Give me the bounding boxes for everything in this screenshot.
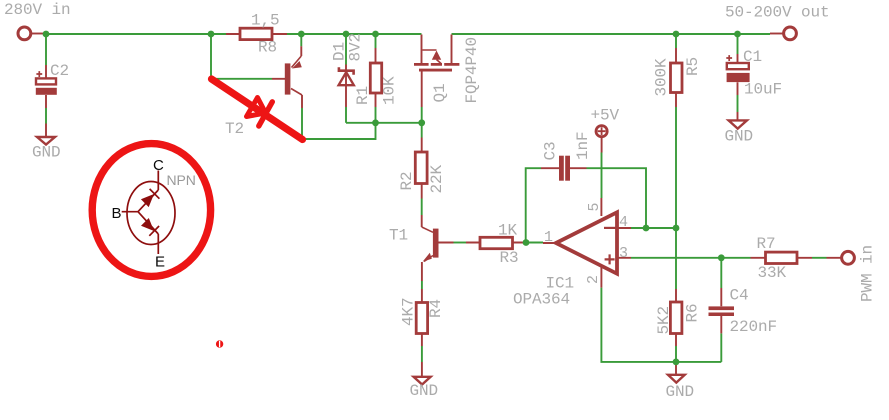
svg-text:C4: C4 bbox=[730, 287, 749, 305]
terminal 280V in bbox=[18, 27, 31, 40]
svg-text:8V2: 8V2 bbox=[347, 33, 365, 62]
resistor R8 leads bbox=[226, 33, 287, 35]
resistor R4 bbox=[416, 303, 427, 334]
wire R1 bottom bbox=[375, 107, 377, 123]
svg-text:R6: R6 bbox=[684, 303, 702, 322]
node out rail at R5 bbox=[673, 31, 680, 38]
wire R3 to op-amp output node bbox=[524, 242, 543, 244]
op-amp IC1 bbox=[556, 212, 617, 273]
svg-text:R2: R2 bbox=[398, 171, 416, 190]
terminal PWM in bbox=[842, 251, 855, 264]
node gate at R2 top bbox=[418, 119, 425, 126]
wire R2 to T1 collector bbox=[421, 199, 423, 216]
svg-text:2: 2 bbox=[585, 275, 602, 284]
zener diode D1 bbox=[339, 67, 354, 85]
svg-text:R1: R1 bbox=[354, 86, 372, 105]
svg-text:PWM in: PWM in bbox=[859, 245, 877, 302]
resistor R6 bbox=[670, 302, 682, 334]
node out rail at C1 bbox=[734, 31, 741, 38]
node rail at R1 bbox=[372, 31, 379, 38]
wire top rail right (Q1 drain to out terminal) bbox=[452, 33, 771, 35]
resistor R7 leads bbox=[751, 257, 842, 259]
node rail at T2 emitter bbox=[298, 31, 305, 38]
mosfet Q1 bbox=[414, 50, 459, 70]
wire T1 base to R3 bbox=[454, 242, 467, 244]
wire pin4 node bbox=[631, 227, 676, 229]
svg-text:33K: 33K bbox=[758, 264, 787, 282]
svg-text:10K: 10K bbox=[381, 76, 399, 105]
svg-text:GND: GND bbox=[725, 128, 754, 146]
svg-text:R8: R8 bbox=[258, 39, 277, 57]
svg-text:FQP4P40: FQP4P40 bbox=[463, 37, 481, 104]
svg-text:280V in: 280V in bbox=[4, 1, 71, 19]
wire D1 top bbox=[345, 34, 347, 65]
LEADS (component pins, dark red) bbox=[32, 34, 842, 377]
capacitor C4 leads bbox=[720, 288, 722, 333]
wire R6 bottom bbox=[675, 346, 677, 362]
wire R5 top bbox=[675, 34, 677, 48]
capacitor C2 plates bbox=[36, 78, 56, 84]
wire top rail left (280V in to R8) bbox=[44, 33, 226, 35]
npn labels bbox=[112, 157, 196, 271]
wire R7 to PWM terminal bbox=[812, 257, 827, 259]
ground under R4 bbox=[414, 377, 431, 385]
svg-text:T1: T1 bbox=[389, 227, 408, 245]
svg-text:T2: T2 bbox=[225, 120, 244, 138]
svg-text:3: 3 bbox=[619, 245, 628, 262]
svg-text:50-200V out: 50-200V out bbox=[725, 4, 830, 22]
annotation small dot bbox=[216, 340, 223, 347]
capacitor C1 plates bbox=[727, 63, 749, 69]
resistor R5 bbox=[671, 63, 683, 93]
svg-text:NPN: NPN bbox=[167, 172, 196, 188]
svg-text:R3: R3 bbox=[500, 249, 519, 267]
npn emitter lead bbox=[157, 234, 159, 254]
capacitor C4 plates bbox=[709, 306, 735, 310]
svg-text:1: 1 bbox=[544, 229, 553, 246]
node op-amp output bbox=[523, 239, 530, 246]
node 280V rail at T2 base bbox=[208, 31, 215, 38]
svg-text:C: C bbox=[153, 157, 164, 174]
svg-text:OPA364: OPA364 bbox=[513, 291, 570, 309]
capacitor C1 leads bbox=[737, 54, 739, 120]
svg-text:+5V: +5V bbox=[591, 107, 620, 125]
svg-text:R7: R7 bbox=[757, 235, 776, 253]
wire +5V drop bbox=[601, 153, 603, 199]
wire T2 collector to gate node bbox=[302, 108, 376, 139]
node pin3 at C4 bbox=[718, 254, 725, 261]
svg-text:4K7: 4K7 bbox=[400, 297, 418, 326]
wire R1 top bbox=[375, 34, 377, 48]
resistor R1 bbox=[370, 63, 381, 93]
resistor R5 leads bbox=[675, 48, 677, 107]
svg-text:5K2: 5K2 bbox=[655, 306, 673, 335]
npn upper diode bbox=[138, 190, 158, 212]
resistor R3 bbox=[480, 237, 513, 248]
wire C3 left leg bbox=[526, 168, 541, 242]
wire T1 emitter to R4 bbox=[421, 281, 423, 289]
resistor R2 bbox=[415, 152, 427, 184]
annotation diagonal strike bbox=[212, 79, 303, 140]
svg-text:GND: GND bbox=[32, 144, 61, 162]
ground under R6 bbox=[668, 375, 685, 383]
wire T2 emitter stub bbox=[300, 34, 302, 46]
diode D1 lead bbox=[345, 65, 347, 108]
node feedback R5 R6 bbox=[673, 225, 680, 232]
wire D1 bottom bbox=[345, 107, 347, 123]
terminal 50-200V out bbox=[784, 27, 797, 40]
wire C4 bottom bbox=[720, 333, 722, 362]
annotation arrow head bbox=[247, 98, 266, 117]
wire gate node horizontal bbox=[346, 122, 422, 124]
wire Q1 gate down bbox=[421, 107, 423, 138]
npn base lead bbox=[122, 211, 138, 213]
wire out terminal stub bbox=[770, 33, 783, 35]
node gate at R1 bottom bbox=[372, 119, 379, 126]
svg-text:R4: R4 bbox=[427, 299, 445, 318]
resistor R6 leads bbox=[675, 289, 677, 375]
wire bottom rail (pin2 to C4) bbox=[601, 288, 721, 362]
transistor T2 bbox=[285, 56, 302, 95]
ground under C2 bbox=[37, 137, 55, 145]
node rail at D1 bbox=[343, 31, 350, 38]
npn symbol circle bbox=[127, 182, 175, 245]
mosfet Q1 leads bbox=[422, 35, 452, 108]
resistor R1 leads bbox=[375, 48, 377, 107]
capacitor C1 plus sign bbox=[726, 55, 732, 61]
RED ANNOTATIONS bbox=[92, 79, 302, 348]
svg-text:GND: GND bbox=[410, 382, 439, 400]
svg-text:GND: GND bbox=[666, 383, 695, 401]
wire top rail middle (R8 to Q1 source) bbox=[287, 33, 422, 35]
annotation cross stroke bbox=[259, 102, 273, 126]
transistor T1 leads bbox=[422, 215, 454, 281]
svg-text:5: 5 bbox=[586, 203, 603, 212]
wire R4 bottom bbox=[421, 346, 423, 362]
svg-text:C3: C3 bbox=[542, 141, 560, 160]
wire C3 right leg bbox=[587, 168, 647, 228]
NPN ANNOTATION SYMBOL bbox=[122, 171, 175, 255]
capacitor C2 leads bbox=[45, 65, 47, 137]
node 280V rail at C2 bbox=[43, 31, 50, 38]
node bottom rail at R6 gnd bbox=[673, 359, 680, 366]
svg-text:R5: R5 bbox=[684, 57, 702, 76]
svg-text:1,5: 1,5 bbox=[251, 12, 280, 30]
wire C4 top bbox=[720, 258, 722, 288]
svg-text:10uF: 10uF bbox=[744, 81, 782, 99]
svg-text:E: E bbox=[155, 254, 165, 271]
npn lower diode bbox=[138, 212, 158, 234]
wire C1 top bbox=[737, 34, 739, 54]
wire 280V terminal stub bbox=[32, 33, 45, 35]
resistor R3 leads bbox=[466, 242, 524, 244]
resistor R7 bbox=[766, 252, 798, 263]
annotation big circle bbox=[92, 144, 210, 277]
ground under C1 bbox=[729, 120, 747, 128]
resistor R2 leads bbox=[421, 138, 423, 199]
op-amp IC1 pin stubs bbox=[543, 198, 631, 288]
svg-text:C1: C1 bbox=[743, 48, 762, 66]
transistor T1 bbox=[422, 227, 439, 262]
svg-text:1nF: 1nF bbox=[574, 131, 592, 160]
capacitor C3 plates bbox=[559, 156, 564, 181]
wire pin3 node to R7 bbox=[631, 257, 751, 259]
svg-text:4: 4 bbox=[619, 214, 628, 231]
capacitor C3 leads bbox=[541, 167, 587, 169]
wire C1 bottom bbox=[737, 95, 739, 112]
wire C2 gnd bbox=[45, 108, 47, 124]
svg-text:Q1: Q1 bbox=[431, 83, 449, 102]
svg-text:1K: 1K bbox=[498, 222, 518, 240]
svg-text:C2: C2 bbox=[50, 62, 69, 80]
svg-text:220nF: 220nF bbox=[730, 318, 778, 336]
resistor R8 bbox=[240, 28, 272, 39]
node feedback C3 bbox=[643, 225, 650, 232]
supply +5V stub bbox=[601, 138, 603, 153]
svg-text:B: B bbox=[112, 205, 122, 222]
npn collector lead bbox=[157, 171, 159, 191]
svg-text:300K: 300K bbox=[653, 58, 671, 97]
transistor T2 leads bbox=[272, 46, 302, 108]
supply +5V symbol bbox=[596, 126, 607, 137]
wire R5 bottom to R6 bbox=[675, 107, 677, 289]
svg-text:22K: 22K bbox=[428, 164, 446, 193]
capacitor C2 plus sign bbox=[36, 71, 42, 77]
wire C2 drop bbox=[45, 34, 47, 65]
wire T2 base bbox=[211, 34, 272, 79]
resistor R4 leads bbox=[421, 289, 423, 377]
